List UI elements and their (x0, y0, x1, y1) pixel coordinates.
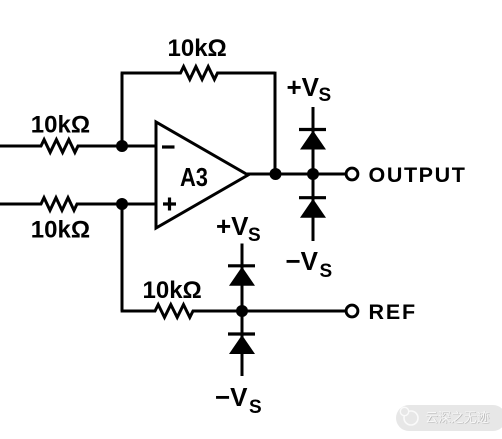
svg-text:OUTPUT: OUTPUT (369, 163, 467, 187)
wire REF diode stack vertical (241, 244, 244, 377)
svg-text:10kΩ: 10kΩ (31, 217, 90, 244)
diode D4 -Vs to REF (228, 334, 255, 354)
svg-text:S: S (249, 397, 262, 418)
wire noninverting node down to REF line (121, 204, 124, 311)
svg-text:+V: +V (287, 72, 320, 102)
svg-text:+V: +V (216, 211, 249, 241)
svg-text:REF: REF (369, 300, 417, 324)
terminal REF (346, 305, 358, 317)
svg-text:−V: −V (286, 246, 319, 276)
svg-text:10kΩ: 10kΩ (168, 35, 227, 62)
svg-text:A3: A3 (180, 164, 208, 192)
wire REF with resistor R4 (121, 305, 345, 318)
svg-text:S: S (319, 85, 332, 106)
svg-text:10kΩ: 10kΩ (31, 112, 90, 139)
watermark logo (404, 411, 418, 425)
svg-text:10kΩ: 10kΩ (143, 277, 202, 304)
wire feedback vertical from inverting node (121, 73, 124, 147)
wire input1 with resistor R1 (0, 140, 156, 153)
wire input2 with resistor R2 (0, 198, 156, 211)
wire feedback right vertical down to output (274, 72, 277, 174)
svg-text:−V: −V (215, 382, 248, 412)
diode D1 output to +Vs (299, 130, 326, 150)
op-amp A3 (156, 122, 248, 228)
wire output diode stack vertical (312, 107, 315, 241)
node inverting input junction (116, 140, 128, 152)
svg-text:S: S (248, 225, 261, 246)
terminal OUTPUT (346, 168, 358, 180)
diode D3 REF to +Vs (228, 266, 255, 286)
node noninverting input junction (116, 198, 128, 210)
node output diode junction (307, 168, 319, 180)
wire feedback top with resistor R3 (121, 67, 275, 80)
wire output (247, 173, 345, 176)
diode D2 -Vs to output (299, 198, 326, 218)
node REF diode junction (236, 305, 248, 317)
node feedback-output junction (270, 168, 282, 180)
svg-text:云深之无迹: 云深之无迹 (425, 410, 489, 425)
svg-text:S: S (320, 261, 333, 282)
watermark pill (396, 405, 502, 431)
